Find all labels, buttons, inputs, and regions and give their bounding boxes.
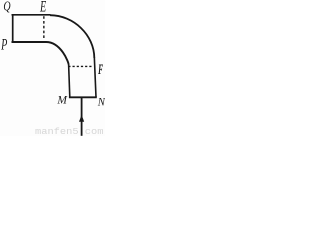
inner elbow arc: [46, 42, 69, 65]
pipe left opening P-Q: [12, 14, 14, 43]
svg-text:F: F: [98, 62, 103, 78]
svg-text:N: N: [97, 94, 105, 108]
pipe top line PQ-E: [12, 14, 51, 16]
pipe bottom line P side: [12, 41, 47, 43]
flow arrow shaft: [81, 98, 83, 136]
svg-text:Q: Q: [3, 0, 10, 15]
left wall M: [69, 64, 70, 97]
svg-text:M: M: [56, 95, 68, 107]
flow arrowhead (up): [79, 115, 84, 122]
svg-text:E: E: [39, 0, 46, 16]
pipe bottom line M-N: [69, 96, 97, 98]
svg-text:manfen5.com: manfen5.com: [35, 126, 104, 136]
outer elbow arc: [50, 15, 94, 58]
dashed line at F: [68, 65, 91, 67]
svg-text:P: P: [0, 37, 7, 54]
dashed line at E: [43, 16, 45, 38]
right wall F-N: [94, 58, 96, 98]
